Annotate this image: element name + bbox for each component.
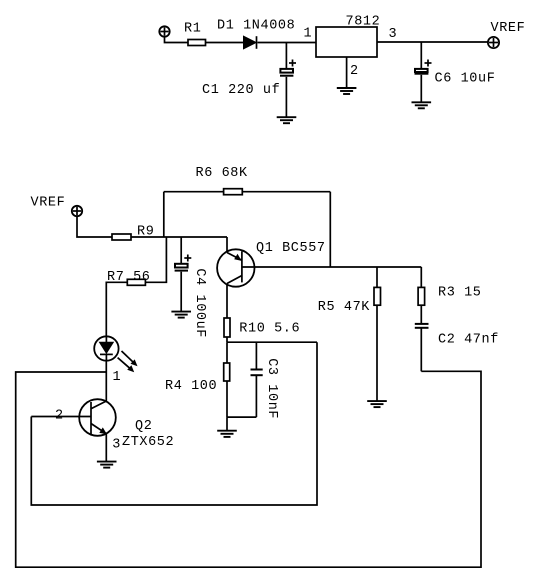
wire LED junction left loop [16,371,481,567]
svg-text:R3 15: R3 15 [438,286,482,301]
resistor R5 47K [374,287,381,305]
transistor Q1 BC557 [217,241,326,287]
svg-text:R6 68K: R6 68K [196,166,249,181]
wire junction down to R4 [226,342,228,363]
wire rail down to R7 [145,237,166,282]
ground Q2 [97,462,117,468]
svg-text:1: 1 [113,370,122,385]
svg-text:2: 2 [55,409,64,424]
capacitor C3 10nF [251,358,280,419]
wire base rail down to R5 [376,267,378,287]
svg-text:R4 100: R4 100 [165,379,217,394]
wire C6 to ground [420,75,422,103]
wire R7 left down to LED [106,282,127,336]
svg-text:C1 220 uf: C1 220 uf [202,83,280,98]
svg-text:VREF: VREF [491,21,526,36]
base wire Q2 [31,416,91,418]
svg-text:R10 5.6: R10 5.6 [239,322,300,337]
wire rail to Q1 emitter [226,237,228,253]
wire Q1 base rail [242,266,421,268]
wire D1 to 7812 pin1 [258,42,317,44]
wire Q1 collector down to R10 [226,284,228,319]
wire R1 to D1 [206,42,244,44]
ground C1 [277,117,297,123]
resistor R4 100 [224,363,230,381]
wire terminal to R1 [165,37,189,43]
node junction C1 [285,43,287,69]
resistor R6 68K [164,166,330,195]
svg-text:C2 47nf: C2 47nf [438,333,499,348]
wire rail down to C4 [180,237,182,264]
wire rail up to R6 [163,192,165,237]
transistor Q2 ZTX652 [79,399,174,450]
node junction C6 [420,42,422,69]
wire C1 to ground [285,77,287,117]
svg-text:Q2: Q2 [135,419,152,434]
svg-text:C4 100uF: C4 100uF [192,268,207,338]
junction rail below R10 [227,341,317,343]
ground C6 [412,102,432,108]
resistor R3 15 [418,287,425,305]
svg-text:7812: 7812 [346,14,381,29]
wire VREF to R9 [77,216,112,237]
wire LED to Q2 collector [105,361,107,402]
wire R3 to C2 [420,305,422,323]
wire R10 to junction rail [226,337,228,342]
ground C4 [171,312,191,318]
svg-text:D1 1N4008: D1 1N4008 [217,19,295,34]
resistor R10 5.6 [224,318,230,337]
ground R5 [367,401,387,407]
LED D2 [94,336,118,360]
wire base rail down to R3 [420,267,422,287]
svg-text:ZTX652: ZTX652 [122,435,174,450]
LED light arrows [118,351,138,372]
wire C4 to ground [180,272,182,312]
resistor R1 [188,40,206,46]
wire Q2 emitter to ground [105,434,107,462]
wire R6 right down to base rail [329,192,331,267]
svg-text:R5 47K: R5 47K [318,300,371,315]
wire bottom node to ground [226,417,228,431]
capacitor C4 100uF [175,255,207,339]
terminal VREF bottom-left [31,196,83,217]
capacitor C1 220uf [202,60,296,99]
wire junction down to C3 [255,342,257,368]
resistor R9 [112,234,131,240]
ground 7812 pin2 [337,88,357,94]
svg-text:C6 10uF: C6 10uF [435,72,496,87]
svg-text:Q1 BC557: Q1 BC557 [256,241,326,256]
wire R9 to node rail [131,236,227,238]
wire Q2 base inner loop [31,342,317,505]
bottom node wire R4 C3 [227,416,256,418]
terminal VREF top-right [488,21,525,48]
wire C3 to bottom node [255,375,257,417]
wire pin2 to ground [346,57,348,88]
capacitor C6 10uF [415,60,496,87]
capacitor C2 47nf [415,324,499,348]
regulator U1 7812 [316,14,380,57]
wire R5 to ground [376,305,378,401]
diode D1 1N4008 [217,19,295,49]
svg-text:C3 10nF: C3 10nF [264,358,279,419]
ground R4 C3 [217,431,237,437]
svg-text:R1: R1 [184,22,201,37]
svg-text:1: 1 [304,27,313,42]
svg-text:3: 3 [112,438,121,453]
terminal input top-left [159,26,169,36]
wire pin3 to VREF terminal [377,41,488,43]
resistor R7 56 [127,279,145,285]
svg-text:VREF: VREF [31,196,66,211]
wire C2 down to loop [420,328,422,372]
svg-text:3: 3 [389,27,398,42]
svg-text:2: 2 [350,64,359,79]
wire R4 to bottom node [226,381,228,417]
